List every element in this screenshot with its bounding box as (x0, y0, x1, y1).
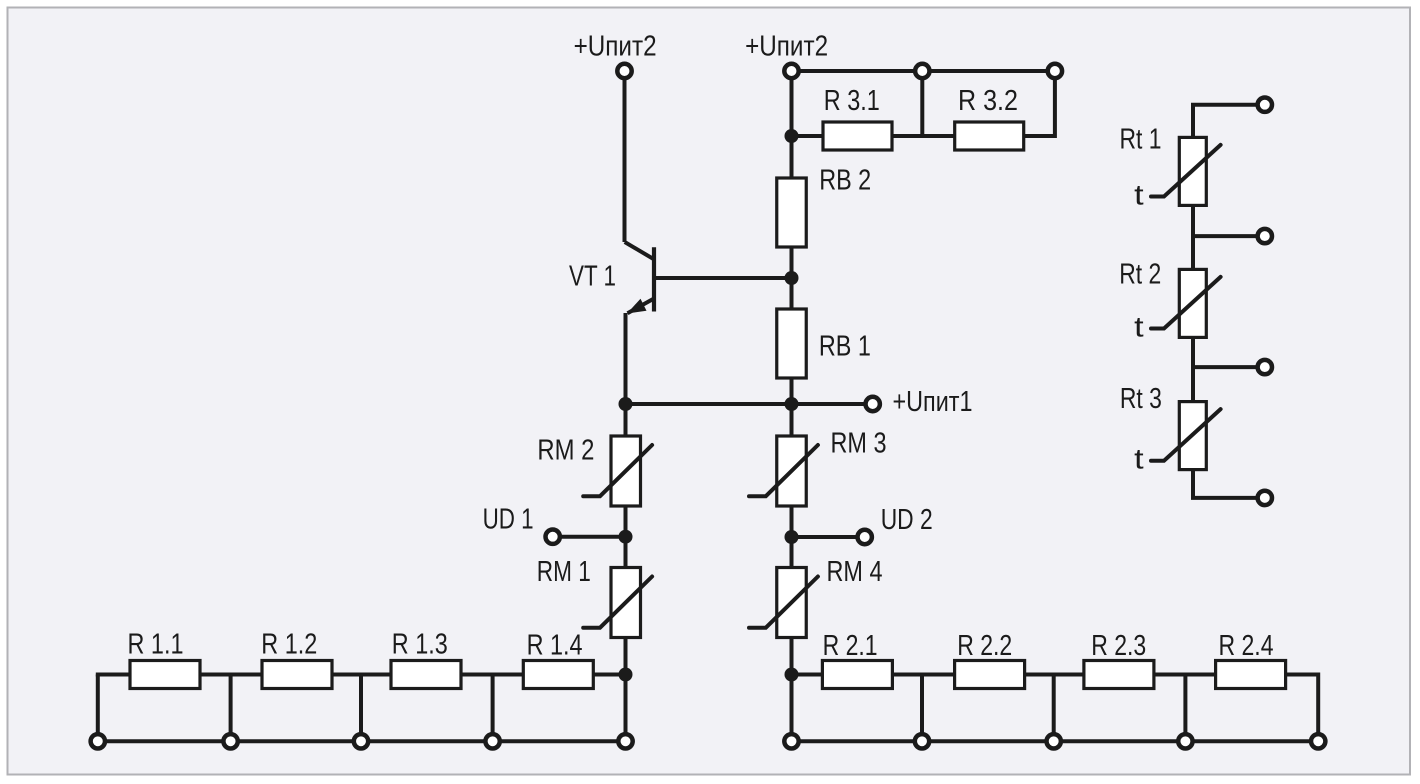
wire: R1 chain drop at tap 3 (359, 675, 363, 742)
terminal top middle (915, 64, 929, 78)
terminal UD 1 (546, 530, 560, 544)
terminal R1 chain 5 (618, 734, 632, 748)
junction node at +Upit1 right (785, 397, 799, 411)
terminal R1 chain 4 (485, 734, 499, 748)
svg-text:RM 1: RM 1 (537, 556, 591, 588)
wire: top rail from +Upit2 right terminal to far right terminal (792, 69, 1055, 73)
svg-text:t: t (1134, 311, 1144, 343)
svg-text:UD 1: UD 1 (483, 504, 534, 536)
svg-text:VT 1: VT 1 (569, 261, 616, 293)
resistor R 2.1 body (822, 661, 892, 689)
svg-text:+Uпит2: +Uпит2 (745, 30, 828, 62)
thermistor Rt 1 body (1179, 137, 1206, 205)
wire: R1 chain top rail (96, 673, 626, 677)
terminal R2 chain 3 (1047, 734, 1061, 748)
wire: R1 chain bottom rail (98, 739, 626, 743)
svg-text:R 2.3: R 2.3 (1091, 630, 1146, 662)
junction node at UD1 (619, 530, 633, 544)
resistor R 1.4 body (523, 661, 593, 689)
thermistor Rt 1 diagonal stroke (1151, 145, 1221, 197)
svg-text:RB 1: RB 1 (819, 330, 871, 362)
varistor RM 2 diagonal stroke (583, 445, 652, 496)
wire: R2 chain top rail (792, 673, 1287, 677)
wire: Rt chain top branch (1193, 105, 1259, 138)
transistor VT1 emitter arrow (627, 299, 647, 314)
wire: R2 chain bottom rail (792, 739, 1319, 743)
resistor R 2.2 body (955, 661, 1025, 689)
resistor RB 1 body (777, 309, 807, 378)
varistor RM 1 diagonal stroke (583, 577, 652, 628)
terminal R2 chain 5 (1311, 734, 1325, 748)
terminal Rt 3rd (1258, 360, 1272, 374)
terminal +Upit1 (866, 397, 880, 411)
svg-text:Rt 3: Rt 3 (1120, 383, 1162, 415)
wire: Rt2-Rt3 spine with branch (1191, 337, 1195, 401)
terminal R1 chain 3 (354, 734, 368, 748)
terminal R1 chain 1 (91, 734, 105, 748)
svg-text:R 2.2: R 2.2 (957, 630, 1012, 662)
resistor R 1.3 body (391, 661, 461, 689)
svg-text:RM 3: RM 3 (831, 428, 887, 460)
wire: RM1 bottom to R1 chain node (624, 638, 628, 675)
svg-text:R 1.4: R 1.4 (527, 629, 583, 661)
wire: Rt3 bottom branch (1193, 470, 1259, 498)
terminal R1 chain 2 (223, 734, 237, 748)
resistor R 3.2 body (955, 122, 1024, 150)
resistor R 2.4 body (1216, 661, 1286, 689)
svg-text:R 2.4: R 2.4 (1219, 630, 1274, 662)
junction node at R2 chain top (785, 668, 799, 682)
thermistor Rt 3 diagonal stroke (1151, 409, 1221, 461)
transistor VT1 emitter lead (628, 299, 655, 314)
wire: middle top terminal drop to R3 row (920, 71, 924, 136)
wire: +Upit2 left terminal down to VT1 collector (623, 77, 627, 242)
wire: R 3.2 right end up to right top terminal (1024, 71, 1055, 136)
wire: Rt branch 2 (1193, 234, 1259, 238)
wire: VT1 base to base node (656, 276, 792, 280)
svg-text:RM 4: RM 4 (827, 556, 883, 588)
wire: RB2 bottom to base node (790, 247, 794, 309)
wire: R1 chain drop at tap 2 (229, 675, 233, 742)
terminal R2 chain 4 (1178, 734, 1192, 748)
wire: R2 chain drop at tap 3 (1052, 675, 1056, 742)
varistor RM 3 diagonal stroke (749, 445, 818, 496)
wire: RB1 bottom to +Upit1 node (790, 378, 794, 436)
wire: +Upit1 node to +Upit1 terminal (792, 402, 867, 406)
thermistor Rt 3 body (1179, 402, 1206, 470)
transistor VT1 collector lead (625, 242, 654, 259)
svg-text:t: t (1134, 444, 1144, 476)
transistor VT1 base bar (652, 247, 656, 311)
svg-text:R 3.1: R 3.1 (824, 85, 880, 117)
wire: RM3 column from +Upit1 node down to UD2 node (790, 506, 794, 568)
junction node at R1 chain top (619, 668, 633, 682)
transistor VT1 (625, 242, 654, 314)
terminal UD 2 (858, 530, 872, 544)
svg-text:R 1.3: R 1.3 (392, 629, 448, 661)
svg-text:Rt 2: Rt 2 (1119, 259, 1161, 291)
varistor RM 2 body (611, 436, 641, 506)
terminal +Upit2 left (617, 64, 631, 78)
resistor R 1.1 body (130, 661, 200, 689)
wire: R2 chain drop at tap 4 (1183, 675, 1187, 742)
junction node at UD2 (785, 530, 799, 544)
wire: R2 chain left drop (790, 675, 794, 742)
svg-text:R 1.1: R 1.1 (128, 629, 184, 661)
resistor R 2.3 body (1084, 661, 1154, 689)
terminal +Upit2 right (784, 64, 798, 78)
svg-text:R 1.2: R 1.2 (261, 629, 317, 661)
wire: R1 chain right drop (624, 675, 628, 742)
wire: UD2 node to UD2 terminal (792, 535, 859, 539)
terminal R2 chain 1 (784, 734, 798, 748)
svg-text:+Uпит2: +Uпит2 (574, 30, 657, 62)
wire: RM2 bottom to UD1 node (624, 506, 628, 568)
terminal Rt 2nd (1258, 229, 1272, 243)
junction node at VT1 base / RB2 / RB1 (785, 271, 799, 285)
wire: R1 chain drop at tap 4 (491, 675, 495, 742)
varistor RM 3 body (777, 436, 807, 506)
wire: RM4 bottom to R2 chain node (790, 638, 794, 675)
resistor RB 2 body (777, 178, 807, 247)
terminal Rt top (1258, 98, 1272, 112)
wire: VT1 emitter down through RM2 top (624, 313, 628, 436)
varistor RM 4 diagonal stroke (749, 577, 818, 628)
thermistor Rt 2 body (1179, 269, 1206, 337)
wire: R2 chain right elbow (1286, 675, 1318, 742)
svg-text:t: t (1134, 179, 1144, 211)
svg-text:R 3.2: R 3.2 (958, 85, 1018, 117)
wire: +Upit1 rail from emitter node to right node (626, 402, 792, 406)
junction node at R3/RB2 (785, 129, 799, 143)
wire: R1 chain left drop (96, 675, 100, 742)
wire: horizontal through R 3.1 row (792, 134, 955, 138)
svg-text:+Uпит1: +Uпит1 (893, 386, 973, 418)
wire: R2 chain drop at tap 2 (920, 675, 924, 742)
wire: +Upit2 right terminal down to R3 junction and RB2 (790, 77, 794, 178)
varistor RM 1 body (611, 568, 641, 638)
svg-text:RB 2: RB 2 (819, 165, 871, 197)
svg-text:Rt 1: Rt 1 (1120, 124, 1162, 156)
terminal R2 chain 2 (915, 734, 929, 748)
wire: Rt1-Rt2 spine with branch (1191, 205, 1195, 269)
svg-text:R 2.1: R 2.1 (823, 630, 878, 662)
junction node at emitter / +Upit1 rail (619, 397, 633, 411)
thermistor Rt 2 diagonal stroke (1151, 277, 1221, 329)
varistor RM 4 body (777, 568, 807, 638)
svg-text:RM 2: RM 2 (537, 435, 594, 467)
wire: UD1 terminal to UD1 node (559, 535, 626, 539)
wire: Rt branch 3 (1193, 365, 1259, 369)
svg-text:UD 2: UD 2 (881, 504, 933, 536)
resistor R 1.2 body (262, 661, 332, 689)
terminal top right (1048, 64, 1062, 78)
terminal Rt bottom (1258, 491, 1272, 505)
resistor R 3.1 body (823, 122, 892, 150)
